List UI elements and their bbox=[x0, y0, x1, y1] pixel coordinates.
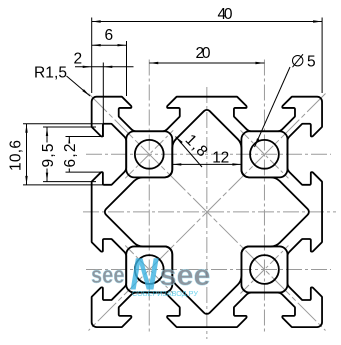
dimension 9,5: value bbox=[41, 143, 55, 169]
dimension 12: dimension line bbox=[172, 163, 241, 165]
dimension 10,6: extension lines bbox=[23, 123, 108, 125]
dimension 6,2: dimension line bbox=[68, 136, 70, 172]
dimension 6: dimension line bbox=[92, 44, 127, 46]
dimension 40: extension line right bbox=[321, 18, 323, 94]
dimension 6: extension line right bbox=[126, 41, 128, 96]
hole 5mm top-right bbox=[250, 140, 279, 169]
svg-text:see: see bbox=[160, 259, 211, 292]
dimension 9,5: dimension line bbox=[46, 127, 48, 182]
svg-text:6: 6 bbox=[105, 27, 114, 44]
dimension 6,2: extension lines bbox=[66, 135, 102, 137]
svg-text:R1,5: R1,5 bbox=[34, 65, 67, 82]
svg-text:see: see bbox=[91, 262, 125, 289]
dimension 40: dimension line bbox=[92, 21, 322, 23]
dimension 1,8: leader line bbox=[176, 137, 203, 168]
boss top-left around screw hole bbox=[126, 131, 172, 177]
dimension R1,5: leader line bbox=[67, 76, 91, 96]
centerline: diagonal crosshair through top-right hole bbox=[240, 130, 288, 178]
svg-text:20: 20 bbox=[196, 45, 211, 62]
centerline: main diagonal bbox=[89, 94, 326, 331]
centerline: horizontal axis of profile bbox=[83, 211, 336, 213]
boss bottom-right around screw hole bbox=[241, 246, 287, 292]
center chamber cavity bbox=[105, 110, 309, 314]
hole 5mm bottom-right bbox=[250, 255, 279, 284]
svg-text:5: 5 bbox=[307, 54, 316, 71]
dimension 9,5: extension lines bbox=[43, 126, 96, 128]
dimension 2: extension line right bbox=[102, 63, 104, 138]
svg-text:12: 12 bbox=[212, 150, 229, 167]
centerline: diagonal crosshair through bottom-left hole bbox=[125, 246, 173, 294]
svg-text:СОБЕРИЗАВОД.РУ: СОБЕРИЗАВОД.РУ bbox=[132, 291, 199, 298]
dimension 20: dimension line bbox=[149, 62, 264, 64]
centerline: vertical slot/hole axis right bbox=[263, 60, 265, 335]
dimension 2: dimension line bbox=[75, 66, 134, 68]
svg-text:9,5: 9,5 bbox=[40, 144, 57, 168]
dimension diameter-5: leader line bbox=[255, 67, 291, 147]
profile outer outline with 8 T-slots bbox=[92, 97, 322, 327]
svg-text:2: 2 bbox=[74, 51, 83, 68]
svg-text:10,6: 10,6 bbox=[8, 140, 25, 171]
boss top-right around screw hole bbox=[241, 131, 287, 177]
dimension diameter-5: symbol and value bbox=[293, 56, 303, 66]
centerline: vertical slot/hole axis left bbox=[148, 60, 150, 335]
centerline: anti-diagonal bbox=[89, 94, 326, 331]
centerline: vertical axis of profile bbox=[206, 87, 208, 339]
hole 5mm bottom-left bbox=[135, 255, 164, 284]
hole 5mm top-left bbox=[135, 140, 164, 169]
boss bottom-left around screw hole bbox=[126, 246, 172, 292]
dimension 10,6: dimension line bbox=[26, 124, 28, 185]
dimension 6,2: value bbox=[63, 144, 77, 169]
centerline: diagonal crosshair through top-left hole bbox=[125, 130, 173, 178]
centerline: horizontal slot/hole axis top bbox=[86, 153, 331, 155]
watermark logo seeNsee bbox=[91, 249, 211, 300]
svg-text:6,2: 6,2 bbox=[62, 144, 79, 168]
dimension 40: extension line left bbox=[91, 18, 93, 94]
svg-text:40: 40 bbox=[218, 6, 233, 23]
centerline: horizontal slot/hole axis bottom bbox=[86, 269, 331, 271]
centerline: diagonal crosshair through bottom-right hole bbox=[240, 246, 288, 294]
